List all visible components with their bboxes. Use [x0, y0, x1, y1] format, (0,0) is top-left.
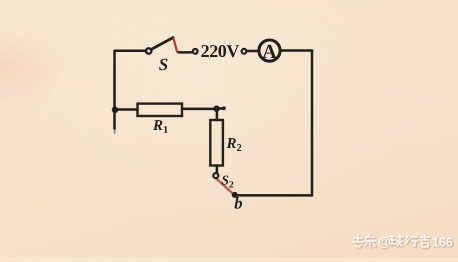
svg-text:A: A — [262, 41, 277, 63]
者 — [421, 234, 429, 247]
switch S pivot terminal — [146, 48, 151, 53]
switch S red tick — [174, 39, 178, 52]
svg-text:@: @ — [378, 234, 391, 249]
svg-text:S: S — [159, 55, 168, 74]
头 — [353, 235, 363, 247]
resistor R2 top stub wire — [216, 109, 219, 120]
践 — [390, 235, 403, 246]
svg-text:220V: 220V — [201, 41, 240, 61]
node b junction dot — [232, 192, 238, 198]
wire left vertical — [113, 51, 116, 129]
junction dot left node — [112, 107, 118, 113]
watermark 头条@践行者166 drawn as vector strokes — [352, 233, 454, 251]
resistor R2 body — [210, 120, 223, 166]
svg-text:R1: R1 — [152, 118, 168, 136]
行 — [406, 236, 418, 246]
wire between switch and 220V terminal — [179, 51, 192, 54]
resistor R2 bottom stub wire — [216, 166, 219, 173]
wire left stub fade — [114, 129, 116, 134]
svg-text:R2: R2 — [226, 136, 242, 154]
switch S blade — [151, 38, 173, 50]
switch S2 terminal circle — [213, 173, 218, 178]
条 — [365, 234, 375, 247]
resistor R1 body — [138, 104, 183, 116]
wire top-left horizontal — [115, 50, 147, 53]
svg-text:b: b — [234, 194, 242, 213]
wire ammeter to right corner — [281, 49, 313, 52]
wire R1 left segment — [115, 108, 138, 111]
switch S2 red blade — [217, 179, 234, 195]
terminal node right of 220V — [242, 49, 247, 54]
wire R1 right segment — [182, 108, 217, 111]
wire end dot — [222, 106, 226, 110]
svg-text:166: 166 — [432, 236, 453, 250]
wire right vertical — [311, 51, 314, 196]
wire tip right of junction — [217, 107, 224, 110]
wire 220V to ammeter — [247, 50, 259, 53]
junction dot at R1/R2 node — [213, 106, 219, 112]
terminal node left of 220V — [193, 49, 198, 54]
ammeter U1 circle — [259, 40, 280, 61]
wire bottom horizontal — [236, 194, 312, 197]
